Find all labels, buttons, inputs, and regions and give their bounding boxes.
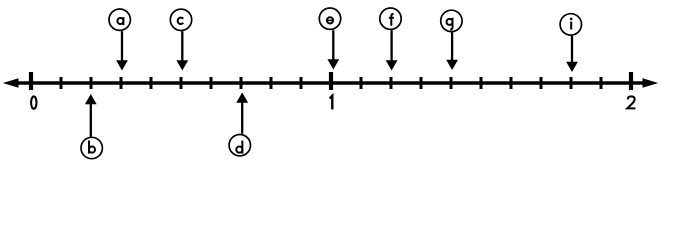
tick 0.9	[300, 77, 303, 89]
arrow f (head)	[386, 60, 398, 70]
tick 0.8	[270, 77, 273, 89]
arrow b (stem)	[90, 103, 92, 137]
arrow b (head)	[85, 94, 97, 104]
arrow f (stem)	[390, 30, 392, 62]
label circle f	[380, 8, 401, 29]
numeral 2	[627, 96, 635, 108]
tick 0.2	[90, 77, 93, 89]
tick 0.1	[60, 77, 63, 89]
tick 0.7	[240, 77, 243, 89]
label circle g	[441, 10, 462, 31]
label circle a	[109, 9, 130, 30]
numeral 1	[330, 96, 333, 110]
arrow c (stem)	[181, 31, 183, 61]
label circle b	[81, 137, 102, 158]
arrow a (head)	[116, 60, 128, 70]
number line left arrowhead	[3, 78, 19, 88]
arrow e (stem)	[332, 30, 334, 61]
label circle e	[319, 8, 340, 29]
tick 1.5	[480, 77, 483, 89]
arrow c (head)	[176, 60, 188, 70]
tick 0.5	[180, 77, 183, 89]
tick 1 (tall)	[329, 72, 333, 90]
tick 0 (tall)	[29, 72, 33, 90]
arrow g (stem)	[451, 32, 453, 61]
arrow g (head)	[446, 60, 458, 70]
tick 0.3	[120, 77, 123, 89]
label circle c	[170, 9, 191, 30]
tick 2 (tall)	[629, 72, 633, 90]
tick 0.4	[150, 77, 153, 89]
label circle i	[560, 14, 581, 35]
numeral 0	[31, 96, 36, 108]
number line	[14, 81, 647, 85]
tick 1.3	[420, 77, 423, 89]
arrow e (head)	[327, 59, 339, 69]
tick 1.7	[540, 77, 543, 89]
arrow i (stem)	[571, 36, 573, 63]
tick 1.9	[600, 77, 603, 89]
tick 1.6	[510, 77, 513, 89]
number line right arrowhead	[643, 78, 659, 88]
arrow i (head)	[566, 62, 578, 72]
tick 1.1	[360, 77, 363, 89]
arrow a (stem)	[121, 31, 123, 62]
arrow d (stem)	[241, 101, 243, 134]
tick 1.4	[450, 77, 453, 89]
tick 0.6	[210, 77, 213, 89]
tick 1.8	[570, 77, 573, 89]
tick 1.2	[390, 77, 393, 89]
label circle d	[229, 135, 250, 156]
arrow d (head)	[236, 92, 248, 102]
